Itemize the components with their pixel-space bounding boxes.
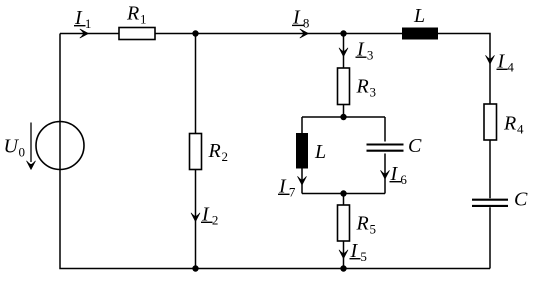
svg-text:C: C <box>514 189 528 211</box>
svg-text:I7: I7 <box>278 176 296 200</box>
svg-text:L: L <box>314 141 326 163</box>
svg-text:I2: I2 <box>201 204 218 228</box>
svg-text:R1: R1 <box>126 3 147 27</box>
svg-text:I3: I3 <box>356 39 373 63</box>
svg-text:I8: I8 <box>292 7 309 31</box>
svg-text:I4: I4 <box>497 51 515 75</box>
svg-text:I1: I1 <box>74 7 91 31</box>
svg-text:I5: I5 <box>350 240 367 264</box>
svg-text:R3: R3 <box>356 76 377 100</box>
svg-text:R5: R5 <box>356 213 377 237</box>
svg-text:L: L <box>413 5 425 27</box>
svg-text:R4: R4 <box>503 112 524 136</box>
svg-text:U0: U0 <box>4 136 25 160</box>
svg-text:I6: I6 <box>390 163 408 187</box>
svg-text:R2: R2 <box>208 140 229 164</box>
svg-text:C: C <box>408 135 422 157</box>
